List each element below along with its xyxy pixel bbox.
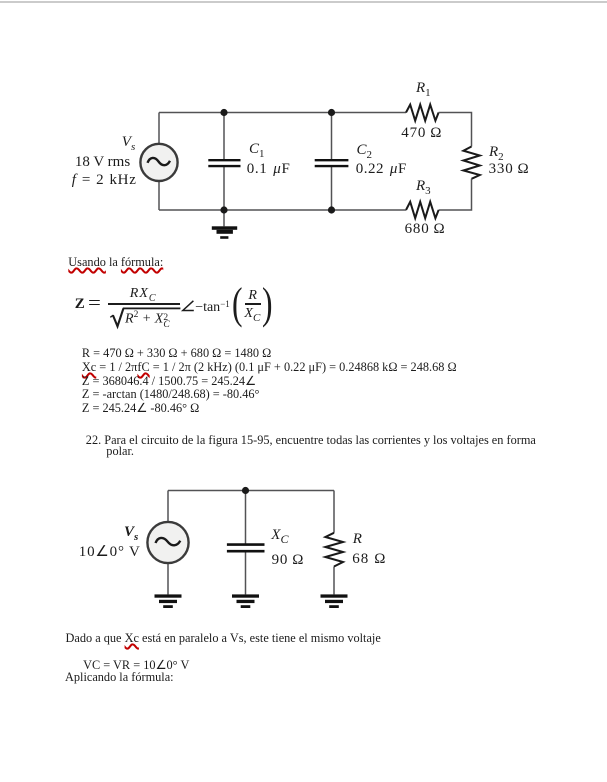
- problem 22 paragraph: [86, 433, 536, 447]
- label 18 V rms: [75, 154, 130, 171]
- label R2: [489, 144, 504, 166]
- capacitor C1 branch wire upper: [223, 113, 225, 160]
- wire bottom rail from R3 to source: [159, 209, 406, 211]
- wire top-right corner: [439, 113, 472, 147]
- capacitor C1 branch wire lower: [223, 167, 225, 210]
- capacitor C1: [208, 159, 240, 161]
- label R1: [416, 80, 431, 102]
- wire bottom-right corner: [439, 179, 472, 210]
- ground under capacitor: [232, 594, 259, 597]
- top page border line: [0, 1, 607, 3]
- formula: minus tan: [195, 296, 230, 316]
- resistor R2: [463, 147, 479, 179]
- label R3: [416, 178, 431, 200]
- label Xc: [271, 527, 288, 548]
- wire source branch lower: [167, 563, 169, 594]
- resistor branch wire lower: [333, 567, 335, 595]
- wire top rail from source to R1: [159, 112, 406, 114]
- label f = 2 kHz: [72, 172, 137, 189]
- label 10 angle 0 V: [79, 544, 141, 561]
- label 0.22 uF: [356, 161, 407, 178]
- label Vs (circuit 2): [124, 524, 138, 546]
- resistor branch wire upper: [333, 491, 335, 533]
- formula: right paren: [262, 281, 273, 326]
- wire source branch lower: [158, 182, 160, 211]
- formula: inner numerator R: [248, 288, 257, 304]
- formula: left paren: [232, 281, 243, 326]
- label C2: [357, 142, 373, 164]
- formula: inner denominator Xc: [244, 306, 260, 326]
- node dot top: [242, 487, 249, 494]
- node dot top C1: [220, 109, 227, 116]
- capacitor C2: [315, 159, 349, 161]
- capacitor branch wire upper: [245, 491, 247, 544]
- label 330 ohm: [489, 161, 530, 178]
- formula: numerator RXc: [130, 286, 157, 307]
- capacitor Xc: [227, 543, 265, 546]
- resistor R: [325, 533, 343, 567]
- node dot bottom C2: [328, 206, 335, 213]
- formula: equals: [88, 293, 101, 314]
- wire source branch upper: [167, 491, 169, 522]
- label Vs (circuit 1): [122, 134, 135, 156]
- ground under source: [155, 594, 182, 597]
- label C1: [249, 141, 265, 163]
- capacitor C2 branch wire lower: [331, 167, 333, 210]
- wire source branch upper: [158, 113, 160, 144]
- resistor R1: [406, 105, 439, 121]
- label 0.1 uF: [247, 161, 291, 178]
- ground under resistor: [321, 594, 348, 597]
- source Vs circle: [147, 522, 188, 563]
- formula: inner fraction bar: [245, 303, 260, 305]
- formula: radical sign and overbar and angle symbol: [104, 280, 296, 332]
- node dot bottom C1: [220, 206, 227, 213]
- capacitor branch wire lower: [245, 552, 247, 595]
- label R: [353, 531, 362, 548]
- formula: denominator R2 + Xc2: [125, 308, 170, 329]
- ground stub wire: [223, 210, 225, 226]
- formula: fraction bar: [108, 303, 181, 305]
- label 90 ohm: [272, 552, 305, 569]
- node dot top C2: [328, 109, 335, 116]
- label 680 ohm: [405, 221, 446, 238]
- label 68 ohm: [352, 551, 386, 568]
- resistor R3: [406, 202, 439, 218]
- capacitor C2 branch wire upper: [331, 113, 333, 160]
- wire top rail: [168, 490, 334, 492]
- ground: [212, 226, 237, 230]
- label 470 ohm: [401, 125, 442, 142]
- calculation lines: [82, 347, 457, 416]
- formula: Z bold: [75, 296, 85, 313]
- source Vs circle: [140, 144, 177, 181]
